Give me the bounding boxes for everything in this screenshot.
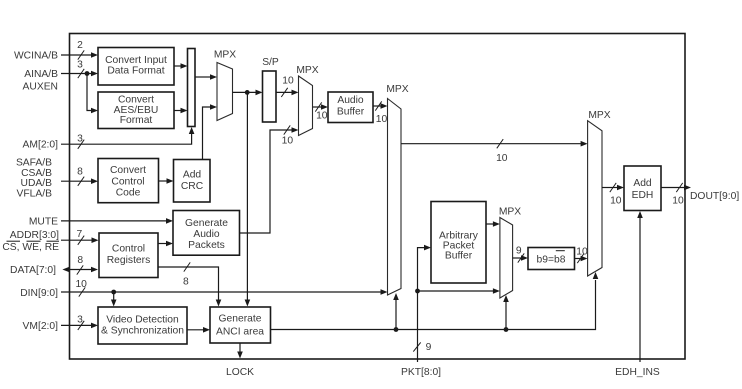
- chip outer boundary: [70, 34, 686, 360]
- svg-text:3: 3: [77, 133, 83, 144]
- wire serial audio down to Generate ANCI area: [245, 92, 251, 306]
- wire S/P output to MPX2 (10): [276, 76, 299, 98]
- svg-text:CRC: CRC: [181, 181, 204, 192]
- svg-text:& Synchronization: & Synchronization: [101, 325, 184, 336]
- svg-text:Audio: Audio: [337, 95, 364, 106]
- block: Generate Audio Packets: [173, 211, 240, 256]
- svg-text:DOUT[9:0]: DOUT[9:0]: [690, 191, 739, 202]
- block: Convert Input Data Format: [98, 48, 174, 86]
- svg-text:10: 10: [316, 110, 328, 121]
- wire SAFA/CSA/UDA/VFLA bus (8): [61, 167, 98, 186]
- svg-text:Buffer: Buffer: [337, 106, 365, 117]
- svg-text:Convert: Convert: [118, 94, 154, 105]
- svg-text:Control: Control: [111, 176, 144, 187]
- junction on MPX1 output: [245, 90, 250, 95]
- svg-text:10: 10: [282, 76, 294, 87]
- svg-text:10: 10: [496, 153, 508, 164]
- svg-text:Add: Add: [183, 169, 202, 180]
- svg-text:10: 10: [672, 195, 684, 206]
- svg-text:VFLA/B: VFLA/B: [17, 188, 53, 199]
- wire MPX4 output to b9=b8 (9): [513, 245, 528, 262]
- wire b9=b8 to MPX5 (10): [575, 246, 588, 263]
- block: Video Detection & Synchronization: [98, 307, 187, 344]
- block: b9=inverted b8: [528, 248, 575, 270]
- wire PKT[8:0] input (9) up to Arbitrary Packet Buffer: [413, 245, 431, 362]
- svg-text:3: 3: [77, 314, 83, 325]
- block: Convert Control Code: [98, 159, 159, 203]
- svg-text:MPX: MPX: [588, 110, 610, 121]
- svg-text:AES/EBU: AES/EBU: [114, 105, 159, 116]
- svg-text:10: 10: [376, 114, 388, 125]
- svg-text:Registers: Registers: [107, 255, 151, 266]
- svg-text:MUTE: MUTE: [29, 216, 58, 227]
- wire LOCK output: [237, 343, 243, 359]
- svg-text:8: 8: [183, 277, 189, 288]
- svg-text:ANCI area: ANCI area: [216, 327, 264, 338]
- wire DATA[7:0] bidirectional (8): [62, 255, 98, 274]
- junction on DIN line: [111, 290, 116, 295]
- svg-text:Packets: Packets: [188, 240, 225, 251]
- wire select branch up to MPX4 bottom: [503, 295, 509, 330]
- wire AINA/B + AUXEN input (3): [61, 60, 98, 79]
- svg-text:MPX: MPX: [296, 65, 318, 76]
- wire Control Registers 8-bit down to Generate ANCI area: [158, 262, 221, 306]
- wire PKT branch to MPX4 lower input: [418, 288, 500, 294]
- register/latch thin rectangle: [188, 49, 196, 127]
- wire Control Registers to Generate Audio Packets: [158, 241, 173, 247]
- svg-text:Buffer: Buffer: [445, 251, 473, 262]
- block: Generate ANCI area: [210, 307, 271, 343]
- svg-text:DATA[7:0]: DATA[7:0]: [10, 265, 56, 276]
- wire WCINA/B input (2): [61, 40, 98, 60]
- wire VM[2:0] input (3): [61, 314, 98, 330]
- svg-text:S/P: S/P: [262, 57, 279, 68]
- svg-text:MPX: MPX: [386, 84, 408, 95]
- svg-text:3: 3: [77, 60, 83, 71]
- svg-text:LOCK: LOCK: [226, 367, 254, 378]
- block: Add EDH: [624, 166, 661, 211]
- svg-text:PKT[8:0]: PKT[8:0]: [401, 367, 441, 378]
- mux MPX2 (audio data select): [296, 65, 318, 136]
- wire Convert Control Code to Add CRC: [159, 178, 174, 184]
- svg-text:EDH_INS: EDH_INS: [615, 367, 660, 378]
- wire Convert Input Data Format to latch: [174, 63, 188, 69]
- svg-text:AINA/B: AINA/B: [24, 69, 58, 80]
- svg-text:Audio: Audio: [193, 229, 220, 240]
- svg-text:9: 9: [426, 342, 432, 353]
- svg-text:MPX: MPX: [499, 207, 521, 218]
- block: Audio Buffer: [328, 92, 373, 123]
- svg-text:MPX: MPX: [214, 50, 236, 61]
- wire MPX2 output to Audio Buffer (10): [313, 102, 329, 121]
- wire DIN[9:0] input (10) across to MPX3: [61, 279, 388, 297]
- wire Arbitrary Packet Buffer to MPX4: [486, 221, 500, 227]
- svg-text:b9=b8: b9=b8: [537, 255, 566, 266]
- wire EDH_INS input up to Add EDH: [637, 211, 643, 362]
- wire latch to MPX1 upper input: [195, 74, 217, 80]
- svg-text:Control: Control: [112, 244, 145, 255]
- svg-text:10: 10: [576, 246, 588, 257]
- svg-text:10: 10: [282, 136, 294, 147]
- svg-text:10: 10: [610, 195, 622, 206]
- svg-text:AM[2:0]: AM[2:0]: [23, 140, 59, 151]
- svg-text:DIN[9:0]: DIN[9:0]: [20, 288, 58, 299]
- junction select to MPX4: [504, 327, 509, 332]
- wire Generate Audio Packets to MPX2 lower input (10): [240, 125, 299, 233]
- wire Audio Buffer to MPX3 (10): [373, 101, 388, 125]
- block: Convert AES/EBU Format: [98, 92, 174, 129]
- mux MPX4 (packet select): [499, 207, 521, 298]
- wire MPX3 output long line to MPX5 (10): [401, 139, 588, 164]
- wire MPX5 output to Add EDH (10): [602, 183, 624, 207]
- block: S/P converter: [262, 57, 279, 122]
- junction select to MPX3: [394, 327, 399, 332]
- svg-text:9: 9: [516, 245, 522, 256]
- svg-text:Format: Format: [120, 115, 153, 126]
- svg-text:Convert: Convert: [110, 165, 146, 176]
- mux MPX5 (output select): [588, 110, 611, 276]
- wire MPX1 output to S/P: [233, 90, 263, 96]
- wire Video Detection to Generate ANCI area: [187, 327, 210, 333]
- svg-text:10: 10: [75, 279, 87, 290]
- junction on AINA/B line: [85, 71, 90, 76]
- wire ANCI select line to MPX5 bottom: [271, 272, 599, 330]
- svg-text:Video Detection: Video Detection: [106, 314, 179, 325]
- wire MUTE input: [61, 218, 173, 224]
- wire ADDR / CS WE RE input (7): [61, 229, 99, 245]
- svg-text:Code: Code: [116, 188, 141, 199]
- block: Arbitrary Packet Buffer: [431, 202, 486, 284]
- pin label CS, WE, RE (active low overbars): [2, 241, 59, 253]
- wire Convert AES/EBU to latch: [174, 108, 188, 114]
- svg-text:VM[2:0]: VM[2:0]: [23, 321, 59, 332]
- svg-text:CS, WE, RE: CS, WE, RE: [2, 242, 59, 253]
- wire AINA/B branch to AES/EBU converter: [87, 74, 98, 114]
- svg-text:Generate: Generate: [219, 314, 262, 325]
- svg-text:2: 2: [77, 40, 83, 51]
- mux MPX3 (tall, audio/DIN select): [386, 84, 408, 295]
- svg-text:Convert Input: Convert Input: [105, 55, 167, 66]
- svg-text:ADDR[3:0]: ADDR[3:0]: [10, 230, 59, 241]
- wire AM[2:0] select (3) into latch bottom: [61, 127, 194, 149]
- svg-text:8: 8: [77, 167, 83, 178]
- wire DIN branch down to Video Detection: [111, 292, 117, 307]
- svg-text:EDH: EDH: [632, 190, 654, 201]
- svg-text:8: 8: [77, 255, 83, 266]
- svg-text:7: 7: [77, 229, 83, 240]
- svg-text:Add: Add: [633, 178, 652, 189]
- svg-text:WCINA/B: WCINA/B: [14, 51, 58, 62]
- block: Control Registers: [99, 233, 158, 278]
- wire select branch up to MPX3 bottom: [393, 293, 399, 330]
- svg-text:Data Format: Data Format: [107, 66, 164, 77]
- wire Add CRC up to MPX1 lower input: [203, 104, 218, 159]
- block: Add CRC: [174, 160, 211, 203]
- mux MPX1 (input format select): [214, 50, 236, 121]
- svg-text:Generate: Generate: [185, 218, 228, 229]
- wire Add EDH to DOUT[9:0] (10): [661, 183, 691, 207]
- junction PKT to MPX4: [415, 289, 420, 294]
- svg-text:AUXEN: AUXEN: [23, 82, 58, 93]
